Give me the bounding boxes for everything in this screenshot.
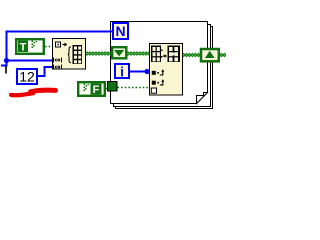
svg-text:N: N bbox=[115, 23, 125, 39]
svg-text:i: i bbox=[120, 65, 124, 80]
svg-text:T: T bbox=[20, 42, 27, 54]
svg-text:F: F bbox=[93, 84, 100, 96]
svg-text:12: 12 bbox=[19, 69, 35, 85]
